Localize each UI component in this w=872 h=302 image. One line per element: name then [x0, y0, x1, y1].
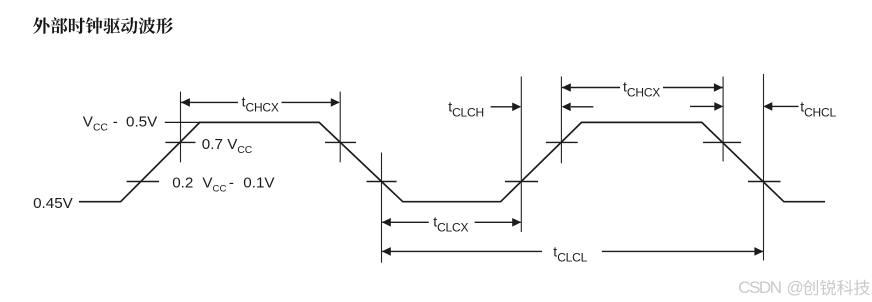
svg-text:0.7VCC: 0.7VCC: [202, 136, 253, 156]
watermark 创锐科技: [803, 280, 870, 296]
svg-text:CSDN: CSDN: [738, 278, 780, 297]
tick rise2 at 0.7Vcc: [546, 141, 578, 143]
tick rise1 at 0.2Vcc-0.1V: [127, 181, 159, 183]
svg-text:0.2VCC-0.1V: 0.2VCC-0.1V: [172, 175, 275, 195]
svg-text:@: @: [787, 278, 804, 297]
ref line L2 (fall1 0.7Vcc): [339, 92, 341, 163]
title 外部时钟驱动波形: [33, 17, 173, 34]
ref line L5 (rise2 0.7Vcc): [560, 77, 562, 164]
ref line L7 (fall2 0.2Vcc): [763, 74, 765, 261]
tick rise1 at 0.7Vcc: [165, 141, 195, 143]
svg-text:tCHCL: tCHCL: [800, 98, 836, 119]
ref line L4 (rise2 0.2Vcc): [520, 77, 522, 233]
svg-text:VCC-0.5V: VCC-0.5V: [83, 114, 158, 134]
tick rise2 at 0.2Vcc-0.1V: [505, 181, 538, 183]
tick fall2 at 0.2Vcc-0.1V: [748, 181, 781, 183]
svg-text:tCHCX: tCHCX: [623, 79, 660, 100]
tick fall2 at 0.7Vcc: [703, 141, 741, 143]
tick fall1 at 0.2Vcc-0.1V: [367, 181, 397, 183]
leader line for Vcc-0.5V label: [165, 121, 200, 123]
ref line L6 (fall2 0.7Vcc): [722, 77, 724, 162]
dimension tCHCL (fall time): [690, 102, 799, 111]
clock waveform trace: [79, 122, 825, 201]
dimension tCLCH (rise time): [491, 103, 594, 112]
ref line L3 (fall1 0.2Vcc): [381, 153, 383, 263]
svg-text:0.45V: 0.45V: [33, 195, 74, 212]
tick fall1 at 0.7Vcc: [325, 141, 356, 143]
svg-text:tCHCX: tCHCX: [242, 94, 279, 115]
dimension tCLCX (low time): [382, 218, 521, 227]
svg-text:tCLCX: tCLCX: [433, 214, 468, 235]
dimension tCHCX (second high time): [562, 83, 723, 92]
ref line L1 (rise1 0.7Vcc): [180, 92, 182, 163]
svg-text:tCLCL: tCLCL: [553, 243, 587, 264]
dimension tCLCL (clock period): [382, 247, 764, 256]
svg-text:tCLCH: tCLCH: [448, 99, 484, 120]
dimension tCHCX (first high time): [181, 98, 340, 107]
